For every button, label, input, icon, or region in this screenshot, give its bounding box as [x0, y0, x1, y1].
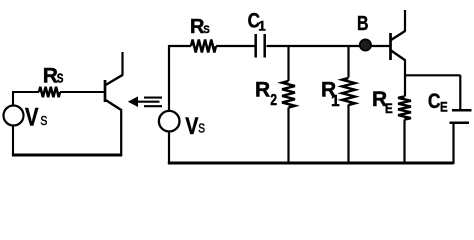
svg-text:S: S [203, 24, 210, 36]
svg-text:B: B [357, 13, 369, 35]
svg-text:1: 1 [331, 93, 340, 110]
svg-text:E: E [440, 99, 448, 115]
svg-text:E: E [385, 100, 393, 116]
svg-text:R: R [255, 79, 270, 102]
svg-text:S: S [57, 71, 64, 86]
svg-text:S: S [40, 113, 47, 128]
svg-text:1: 1 [258, 19, 266, 34]
svg-text:V: V [25, 104, 39, 132]
svg-text:V: V [185, 113, 198, 140]
svg-text:2: 2 [270, 92, 277, 109]
svg-text:C: C [428, 90, 441, 113]
svg-text:R: R [43, 65, 58, 88]
svg-text:S: S [198, 122, 205, 136]
